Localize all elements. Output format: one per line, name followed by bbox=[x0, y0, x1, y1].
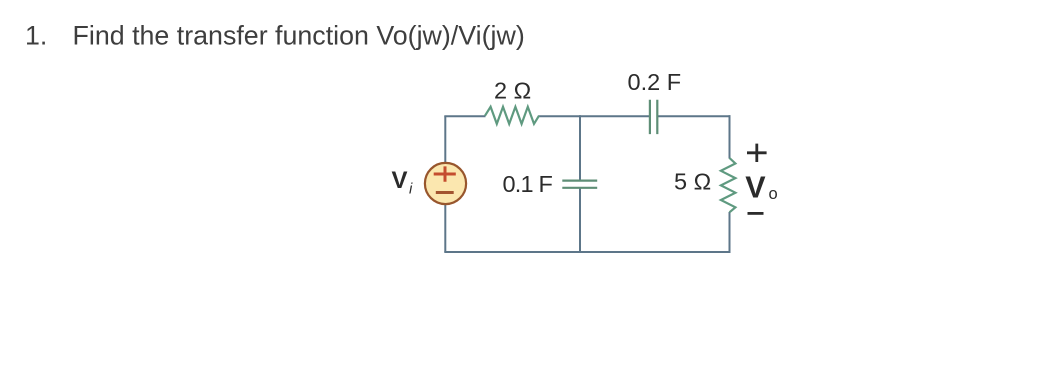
svg-text:V: V bbox=[392, 167, 408, 194]
svg-text:1.: 1. bbox=[25, 21, 47, 51]
label Vo bbox=[745, 171, 777, 205]
svg-text:i: i bbox=[409, 181, 413, 198]
wire: middle vertical lower (0.1F bottom plate to bottom rail) bbox=[579, 188, 581, 253]
wire: right vertical upper (top-right corner to 5Ω resistor) bbox=[729, 115, 731, 158]
label − (Vo polarity) bbox=[748, 212, 764, 215]
wire: right vertical lower (5Ω resistor to bottom rail) bbox=[729, 212, 731, 253]
svg-text:Find the transfer function Vo(: Find the transfer function Vo(jw)/Vi(jw) bbox=[73, 21, 525, 51]
problem statement text bbox=[25, 21, 525, 51]
svg-text:0.2 F: 0.2 F bbox=[628, 69, 682, 95]
svg-text:2 Ω: 2 Ω bbox=[494, 78, 531, 104]
capacitor 0.1 F (horizontal plates on middle branch) bbox=[562, 181, 597, 188]
svg-text:V: V bbox=[745, 171, 766, 205]
voltage source Vi (circle with plus and minus) bbox=[425, 163, 466, 204]
wire: bottom rail bbox=[444, 251, 730, 253]
svg-text:0.1 F: 0.1 F bbox=[503, 171, 553, 197]
wire: middle vertical upper (top rail to 0.1F top plate) bbox=[579, 115, 581, 180]
label Vi bbox=[392, 167, 414, 198]
capacitor 0.2 F (vertical plates on top rail) bbox=[650, 100, 657, 134]
resistor 2Ω (horizontal zigzag on top rail) bbox=[485, 107, 539, 124]
wire: top rail left segment (top-left corner to resistor) bbox=[444, 115, 485, 117]
wire: top rail middle segment (resistor to 0.2F left plate) bbox=[539, 115, 650, 117]
svg-text:5 Ω: 5 Ω bbox=[674, 169, 711, 195]
resistor 5Ω (vertical zigzag on right branch) bbox=[721, 158, 736, 212]
svg-text:o: o bbox=[769, 185, 778, 203]
wire: left vertical from source - terminal down to bottom rail bbox=[444, 205, 446, 253]
wire: top rail right segment (0.2F right plate to top-right corner) bbox=[657, 115, 730, 117]
wire: left vertical from top rail down to source + terminal bbox=[444, 116, 446, 162]
label + (Vo polarity) bbox=[747, 144, 767, 162]
